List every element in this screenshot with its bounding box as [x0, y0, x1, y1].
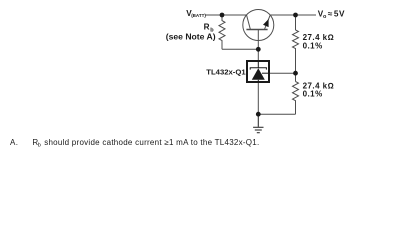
resistor R2 27.4k bottom — [293, 82, 299, 115]
svg-text:(see Note A): (see Note A) — [166, 31, 216, 41]
svg-text:should provide cathode current: should provide cathode current ≥1 mA to … — [44, 138, 259, 147]
svg-text:0.1%: 0.1% — [303, 41, 323, 50]
bottom node junction dot — [256, 112, 261, 117]
wire TL432 anode to bottom node — [257, 83, 259, 114]
svg-text:TL432x-Q1: TL432x-Q1 — [206, 67, 246, 76]
svg-text:b: b — [38, 142, 41, 148]
transistor Q1 — [243, 10, 274, 41]
resistor Rb — [219, 15, 225, 49]
wire bottom rail — [258, 113, 295, 115]
node M junction dot — [293, 71, 298, 76]
wire transistor base to TL432 cathode — [257, 30, 259, 62]
wire transistor emitter to node O1 — [270, 14, 295, 16]
ground — [253, 114, 263, 133]
wire TL432 ref to node M — [262, 72, 296, 74]
shunt regulator U1 TL432x-Q1 — [247, 60, 270, 83]
wire node B1 to transistor collector — [222, 14, 247, 16]
resistor R1 27.4k top — [293, 30, 299, 73]
svg-text:≈: ≈ — [328, 10, 333, 19]
svg-text:0.1%: 0.1% — [303, 90, 323, 99]
svg-text:(BATT): (BATT) — [191, 13, 206, 18]
wire node O1 to Vo label — [296, 14, 317, 16]
wire Rb bottom to node K — [222, 48, 258, 50]
svg-text:A.: A. — [10, 138, 18, 147]
node K junction dot — [256, 47, 261, 52]
wire V(BATT) to node B1 — [205, 14, 222, 16]
note A text — [10, 138, 259, 149]
wire node M down to R2 — [295, 73, 297, 81]
wire node O1 down to R1 — [295, 15, 297, 30]
node O1 junction dot — [293, 13, 298, 18]
svg-text:V: V — [339, 10, 345, 19]
svg-text:o: o — [323, 14, 327, 20]
node B1 junction dot — [220, 13, 225, 18]
